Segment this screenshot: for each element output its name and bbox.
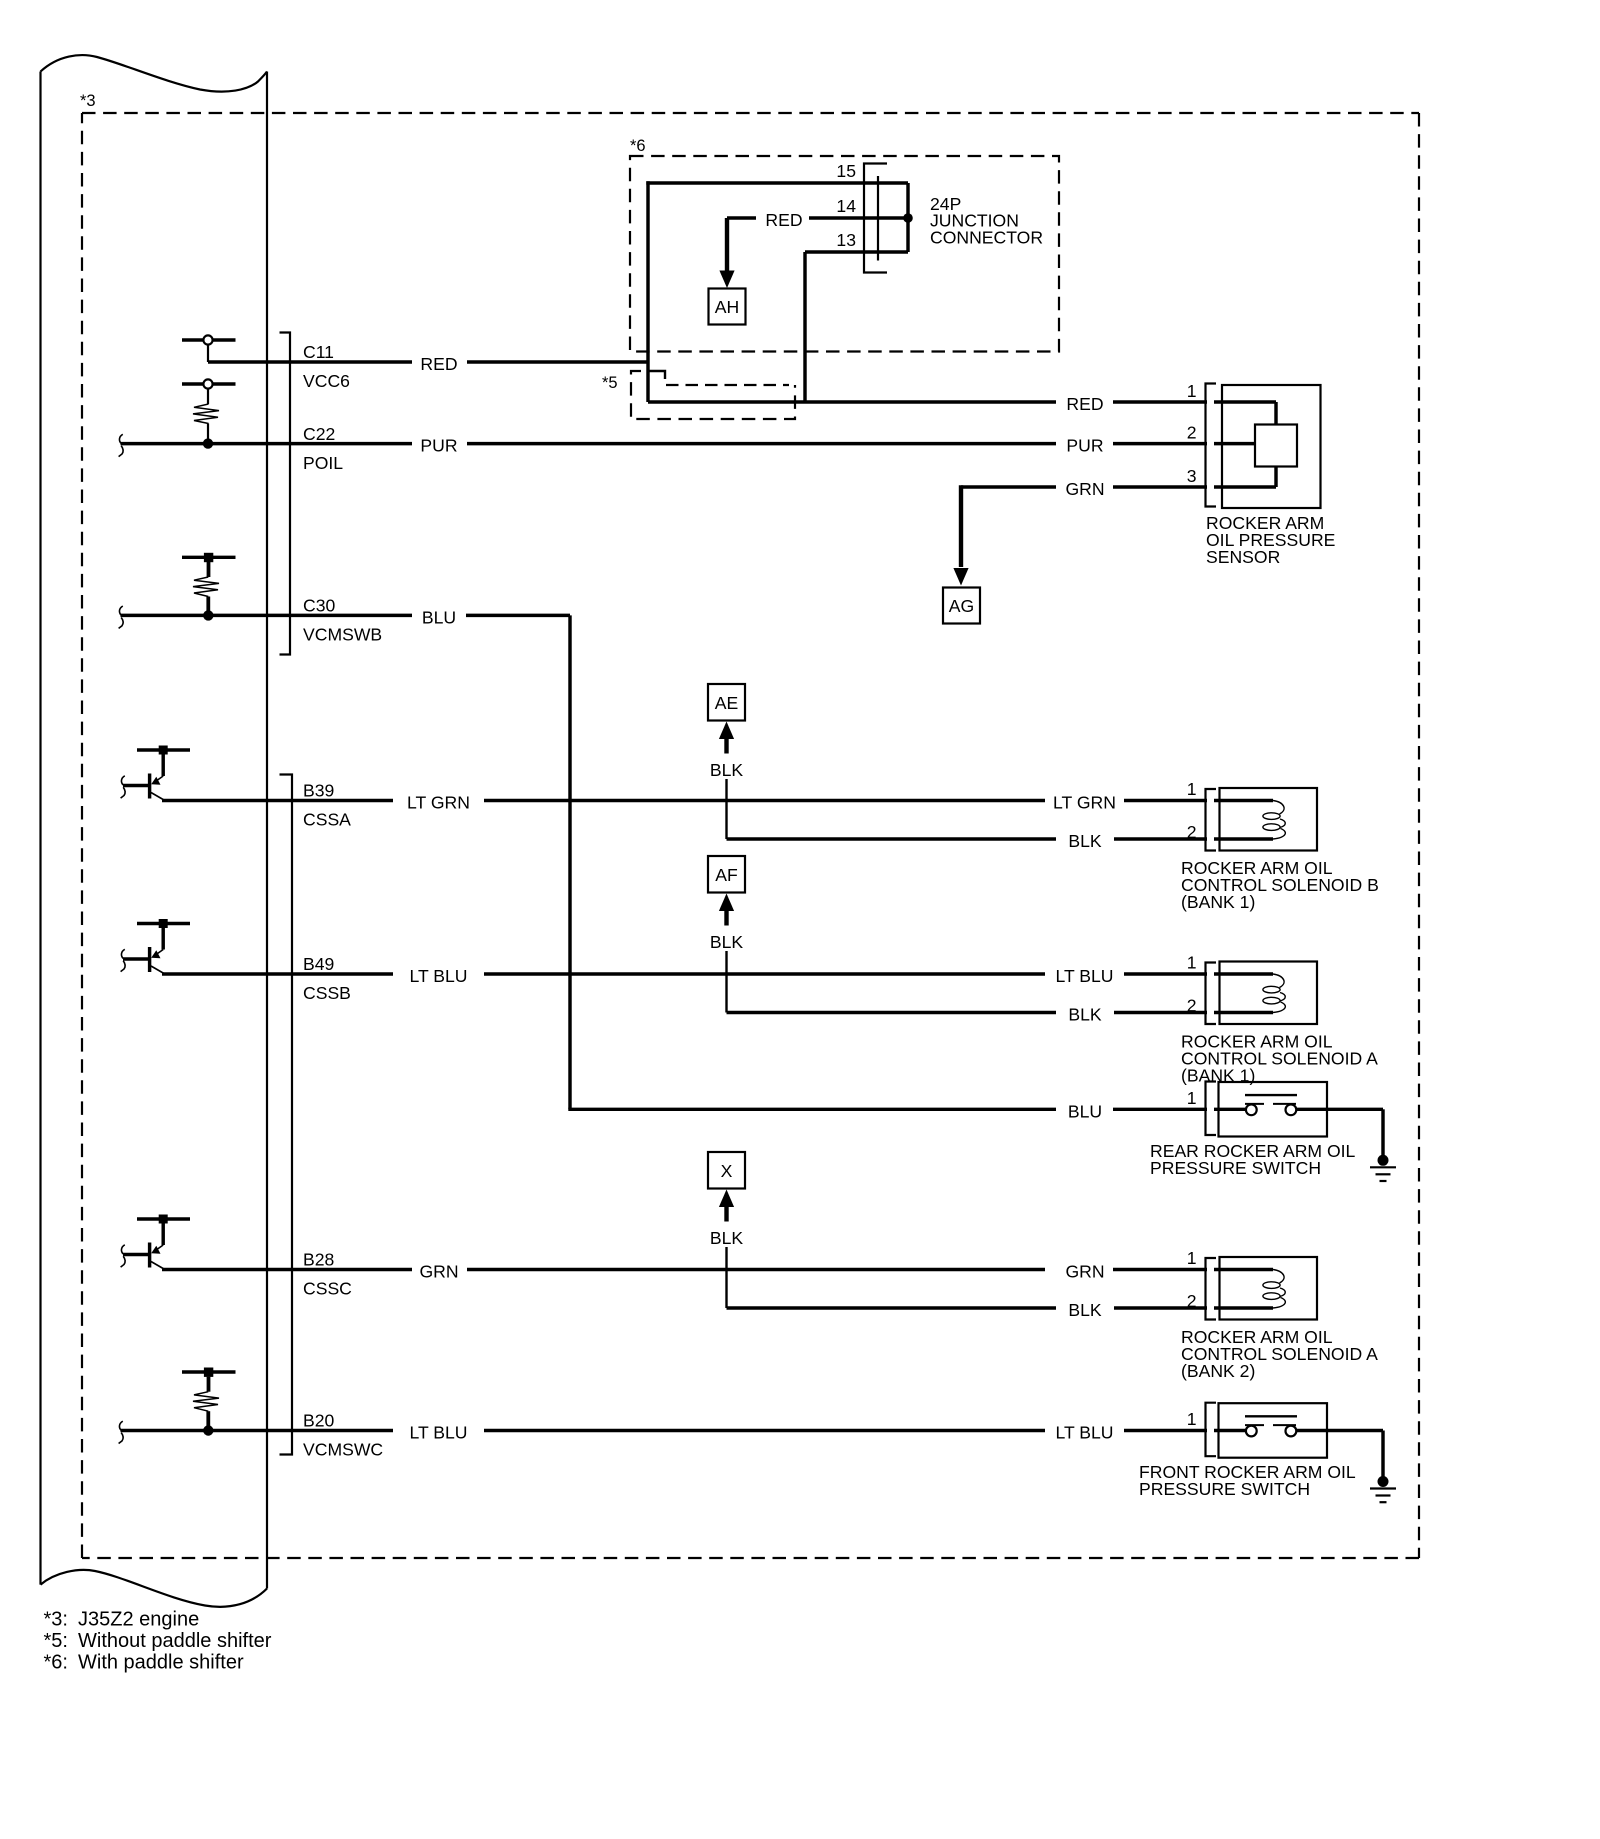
ground dot	[1378, 1476, 1389, 1487]
rocker arm oil pressure sensor body	[1222, 385, 1321, 508]
svg-text:3: 3	[1187, 466, 1197, 486]
switch blade	[1245, 1094, 1297, 1096]
svg-text:X: X	[721, 1161, 733, 1181]
svg-text:VCC6: VCC6	[303, 371, 350, 391]
svg-text:CSSB: CSSB	[303, 983, 351, 1003]
svg-text:2: 2	[1187, 423, 1197, 443]
svg-text:PUR: PUR	[1066, 436, 1103, 456]
connector AG box	[943, 588, 980, 624]
svg-text:GRN: GRN	[1065, 1262, 1104, 1282]
svg-text:*5:: *5:	[44, 1630, 68, 1652]
wire BLK to solenoid pin 2	[727, 1306, 1057, 1309]
pressure switch connector bracket	[1206, 1082, 1217, 1136]
ECM/PCM body right edge	[266, 72, 268, 1589]
arrow into AG	[953, 568, 968, 586]
svg-text:BLK: BLK	[710, 932, 744, 952]
svg-text:1: 1	[1187, 1248, 1197, 1268]
driver transistor at pin B49	[137, 922, 190, 925]
svg-text:LT BLU: LT BLU	[409, 966, 467, 986]
svg-text:C11: C11	[303, 342, 334, 362]
ECM connector bracket (B-pin group)	[280, 775, 293, 1455]
24P junction connector bracket	[864, 164, 887, 273]
connector AE box	[708, 684, 745, 721]
wire drop GRN to connector AG	[959, 485, 963, 567]
svg-text:LT BLU: LT BLU	[1055, 1423, 1113, 1443]
pressure switch body	[1219, 1403, 1328, 1458]
ground wire	[1381, 1431, 1384, 1478]
wire B39 LT GRN	[162, 799, 393, 802]
svg-text:1: 1	[1187, 779, 1197, 799]
wire B49 LT BLU	[162, 972, 393, 975]
arrow up into AE	[719, 722, 734, 740]
wire junction pin 13	[805, 250, 908, 253]
svg-text:*6:: *6:	[44, 1652, 68, 1674]
arrow into AH	[719, 271, 734, 289]
svg-text:RED: RED	[765, 210, 802, 230]
switch contacts	[1246, 1104, 1257, 1115]
solenoid connector bracket	[1206, 1258, 1217, 1320]
svg-text:LT GRN: LT GRN	[407, 793, 470, 813]
wire BLK drop to solenoid pin 2	[725, 951, 727, 1013]
switch blade	[1245, 1415, 1297, 1417]
ECM/PCM body left edge	[39, 72, 41, 1585]
pull-up resistor (C22)	[193, 404, 219, 424]
svg-text:GRN: GRN	[1065, 479, 1104, 499]
arrow up into X	[719, 1190, 734, 1208]
rocker arm oil pressure sensor connector bracket	[1206, 384, 1217, 507]
switch contacts	[1246, 1426, 1257, 1437]
wire-break squiggle (C30 row)	[119, 606, 124, 628]
wire junction pin 15	[646, 181, 908, 184]
solenoid body	[1220, 962, 1318, 1025]
svg-text:BLK: BLK	[710, 760, 744, 780]
svg-text:BLU: BLU	[422, 607, 456, 627]
svg-text:*6: *6	[630, 137, 646, 155]
svg-text:B20: B20	[303, 1411, 335, 1431]
pressure switch body	[1219, 1082, 1328, 1137]
solenoid connector bracket	[1206, 789, 1217, 851]
junction dot C30	[203, 610, 213, 620]
svg-text:VCMSWC: VCMSWC	[303, 1440, 383, 1460]
svg-text:BLK: BLK	[1068, 1005, 1102, 1025]
driver transistor at pin B28	[137, 1217, 190, 1220]
wire B20 LT BLU to front pressure switch	[121, 1429, 394, 1432]
svg-text:B39: B39	[303, 781, 334, 801]
wire C22 PUR to sensor pin 2	[121, 442, 413, 445]
svg-text:CSSC: CSSC	[303, 1279, 352, 1299]
solid stub to *5 alternate path	[648, 371, 665, 379]
ECM/PCM body torn bottom edge	[41, 1570, 268, 1607]
connector AF box	[708, 856, 745, 893]
junction bus dot	[903, 213, 913, 223]
connector AH box	[709, 289, 746, 325]
svg-text:*3:: *3:	[44, 1609, 68, 1631]
svg-text:AE: AE	[715, 693, 738, 713]
supply switch symbol at pin B20	[182, 1370, 236, 1373]
svg-text:*3: *3	[80, 92, 96, 110]
svg-text:2: 2	[1187, 996, 1197, 1016]
wire riser junction pin 13 to sensor RED	[803, 252, 806, 402]
wire C30 BLU	[121, 614, 413, 617]
solenoid body	[1220, 1257, 1318, 1320]
ECM connector bracket (C-pin group)	[280, 333, 291, 655]
svg-text:RED: RED	[420, 354, 457, 374]
svg-text:LT GRN: LT GRN	[1053, 793, 1116, 813]
wire riser C11 to junction pin 15	[646, 181, 649, 402]
junction internal bus	[906, 183, 909, 252]
wire riser BLU down to rear pressure switch row	[568, 615, 571, 1109]
svg-text:*5: *5	[602, 374, 618, 392]
svg-text:Without paddle shifter: Without paddle shifter	[78, 1630, 272, 1652]
wire BLK to solenoid pin 2	[727, 1011, 1057, 1014]
svg-text:C30: C30	[303, 595, 335, 615]
svg-text:VCMSWB: VCMSWB	[303, 624, 382, 644]
solenoid connector bracket	[1206, 963, 1217, 1025]
svg-text:B28: B28	[303, 1250, 335, 1270]
svg-text:With paddle shifter: With paddle shifter	[78, 1652, 244, 1674]
pull-up switch symbol at pin C22	[182, 382, 236, 385]
svg-text:1: 1	[1187, 1088, 1197, 1108]
wire B28 GRN	[162, 1268, 412, 1271]
dashed alternate wire (*5 path)	[666, 384, 789, 386]
wire-break squiggle (B20 row)	[119, 1421, 124, 1443]
svg-text:15: 15	[836, 161, 856, 181]
svg-text:1: 1	[1187, 381, 1197, 401]
ground dot	[1378, 1155, 1389, 1166]
wire BLK drop to solenoid pin 2	[725, 779, 727, 839]
pull-up supply switch symbol at pin C11	[182, 338, 236, 341]
svg-text:CONNECTOR: CONNECTOR	[930, 227, 1043, 247]
solenoid pin wires	[1214, 972, 1273, 975]
arrow up into AF	[719, 894, 734, 912]
svg-text:PRESSURE SWITCH: PRESSURE SWITCH	[1139, 1479, 1310, 1499]
svg-text:14: 14	[836, 196, 856, 216]
svg-text:2: 2	[1187, 822, 1197, 842]
svg-text:GRN: GRN	[419, 1262, 458, 1282]
svg-text:LT BLU: LT BLU	[1055, 966, 1113, 986]
switch contact wires	[1214, 1108, 1247, 1111]
solenoid pin wires	[1214, 799, 1273, 802]
solenoid body	[1220, 788, 1318, 851]
junction dot B20	[203, 1425, 213, 1435]
supply switch symbol at pin C30	[182, 556, 236, 559]
ECM/PCM body torn top edge	[41, 55, 268, 91]
resistor (C30)	[193, 577, 219, 597]
svg-text:AG: AG	[949, 596, 974, 616]
sensor internal element	[1255, 425, 1297, 467]
junction dot C22	[203, 438, 213, 448]
svg-text:LT BLU: LT BLU	[409, 1423, 467, 1443]
dashed enclosure *6 (with paddle shifter)	[630, 156, 1059, 352]
svg-text:BLK: BLK	[710, 1228, 744, 1248]
svg-text:CSSA: CSSA	[303, 810, 351, 830]
svg-text:AF: AF	[715, 865, 738, 885]
svg-text:PUR: PUR	[420, 436, 457, 456]
dashed enclosure *3 (J35Z2 engine)	[82, 112, 1419, 114]
switch contact wires	[1214, 1429, 1247, 1432]
svg-text:POIL: POIL	[303, 453, 343, 473]
wire-break squiggle (C22 row)	[119, 434, 124, 456]
dashed enclosure *5 (without paddle shifter)	[631, 371, 795, 419]
wire drop to connector AH	[725, 218, 729, 272]
driver transistor at pin B39	[137, 748, 190, 751]
svg-text:SENSOR: SENSOR	[1206, 547, 1280, 567]
solenoid pin wires	[1214, 1268, 1273, 1271]
svg-text:C22: C22	[303, 424, 335, 444]
connector X box	[708, 1152, 745, 1189]
wire BLU to rear rocker arm oil pressure switch	[568, 1108, 1056, 1111]
wire junction pin 14 RED	[727, 216, 756, 219]
svg-text:B49: B49	[303, 954, 334, 974]
svg-text:PRESSURE SWITCH: PRESSURE SWITCH	[1150, 1158, 1321, 1178]
wire C11 RED (ECM to junction)	[208, 360, 412, 363]
wire BLK to solenoid pin 2	[727, 837, 1057, 840]
wire BLK drop to solenoid pin 2	[725, 1247, 727, 1308]
svg-text:13: 13	[836, 230, 856, 250]
svg-text:RED: RED	[1066, 394, 1103, 414]
svg-text:2: 2	[1187, 1291, 1197, 1311]
ground symbol	[1370, 1487, 1396, 1489]
wire GRN from sensor pin 3	[961, 485, 1056, 488]
solenoid coil	[1273, 801, 1285, 840]
svg-text:AH: AH	[715, 297, 739, 317]
ground wire	[1381, 1109, 1384, 1156]
resistor (B20)	[193, 1392, 219, 1412]
svg-text:BLU: BLU	[1068, 1101, 1102, 1121]
svg-text:(BANK 1): (BANK 1)	[1181, 892, 1255, 912]
svg-text:BLK: BLK	[1068, 831, 1102, 851]
solenoid coil	[1273, 974, 1285, 1013]
svg-text:1: 1	[1187, 1409, 1197, 1429]
ground symbol	[1370, 1166, 1396, 1168]
pressure switch connector bracket	[1206, 1403, 1217, 1457]
wire RED to rocker arm oil pressure sensor pin 1	[648, 400, 1056, 403]
svg-text:BLK: BLK	[1068, 1300, 1102, 1320]
svg-text:1: 1	[1187, 953, 1197, 973]
solenoid coil	[1273, 1270, 1285, 1309]
svg-text:J35Z2 engine: J35Z2 engine	[78, 1609, 199, 1631]
svg-text:(BANK 2): (BANK 2)	[1181, 1361, 1255, 1381]
